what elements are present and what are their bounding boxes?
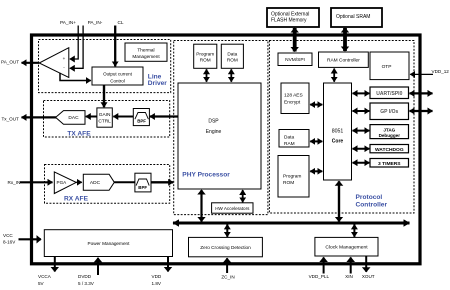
svg-text:BPF: BPF (138, 185, 147, 190)
svg-text:PA_OUT: PA_OUT (1, 60, 19, 65)
RX BPF (135, 173, 151, 192)
svg-text:Protocol: Protocol (356, 194, 383, 201)
GP I/Os box (370, 103, 409, 120)
wire DVDD in (97, 258, 99, 275)
svg-text:WATCHDOG: WATCHDOG (375, 147, 404, 153)
svg-text:Rx_IN: Rx_IN (8, 180, 21, 185)
svg-text:Driver: Driver (148, 80, 167, 87)
svg-text:VDD_12: VDD_12 (432, 69, 450, 74)
svg-text:8051: 8051 (332, 128, 344, 134)
svg-text:HW Accelerators: HW Accelerators (215, 206, 250, 211)
svg-text:DVDD: DVDD (78, 274, 92, 279)
svg-text:GAIN: GAIN (99, 112, 111, 118)
wire ZC_IN (226, 258, 228, 273)
svg-text:Program: Program (283, 174, 301, 180)
wire PA_IN- to amp (70, 26, 83, 69)
wire program ROM to core (310, 170, 322, 172)
data RAM box (279, 130, 309, 148)
watchdog box (370, 145, 409, 153)
svg-text:Optional SRAM: Optional SRAM (336, 14, 370, 20)
wire core to UART (353, 92, 370, 94)
svg-text:Debugger: Debugger (379, 133, 401, 138)
svg-text:5 / 3.3V: 5 / 3.3V (78, 281, 95, 286)
128 AES encrypt box (281, 83, 309, 114)
wire core to bus (338, 181, 340, 221)
program ROM box (PHY) (194, 44, 217, 68)
svg-text:PHY Processor: PHY Processor (182, 172, 230, 179)
ADC (83, 174, 114, 190)
wire amp feedback to control (60, 73, 91, 81)
wire PGA to ADC (77, 181, 82, 183)
wire XOUT (365, 256, 367, 271)
wire BPF to gain ctrl (113, 116, 133, 118)
svg-text:VDD_PLL: VDD_PLL (309, 274, 330, 279)
svg-text:RAM Controller: RAM Controller (327, 58, 360, 64)
svg-text:UART/SPI0: UART/SPI0 (376, 91, 402, 97)
wire ADC to RX BPF (114, 181, 135, 183)
svg-text:+: + (63, 56, 66, 61)
svg-text:Management: Management (132, 54, 160, 59)
svg-text:Program: Program (196, 51, 214, 56)
JTAG debugger box (370, 125, 409, 139)
svg-text:Data: Data (227, 51, 237, 56)
svg-text:PGA: PGA (57, 180, 68, 185)
thermal management box (125, 43, 167, 61)
program ROM box (protocol) (278, 156, 309, 198)
TX AFE dashed box (44, 101, 170, 138)
gain ctrl box (97, 108, 112, 127)
NVM/SPI box (278, 53, 312, 66)
optional external flash memory box (267, 8, 319, 27)
wire DSP to bus (200, 190, 202, 221)
wire SRAM to RAM controller (343, 28, 347, 51)
RAM controller box (319, 52, 369, 67)
svg-text:FLASH Memory: FLASH Memory (271, 18, 307, 24)
wire RAM controller to core (333, 69, 335, 82)
3 timers box (370, 159, 409, 168)
protocol controller dashed box (269, 41, 414, 214)
svg-text:ROM: ROM (283, 180, 294, 186)
PGA (54, 172, 76, 194)
svg-text:Zero Crossing Detection: Zero Crossing Detection (200, 245, 251, 250)
svg-text:Power Management: Power Management (88, 241, 131, 246)
svg-text:128 AES: 128 AES (284, 93, 303, 99)
svg-text:3 TIMERS: 3 TIMERS (378, 161, 401, 167)
svg-text:Thermal: Thermal (137, 47, 154, 52)
wire GP I/Os external (410, 110, 433, 112)
svg-text:OTP: OTP (382, 64, 392, 70)
wire CL to output current control (114, 26, 116, 67)
svg-text:Controller: Controller (356, 202, 388, 209)
optional SRAM box (331, 8, 382, 27)
svg-text:Data: Data (284, 135, 294, 141)
wire PA_OUT (22, 62, 40, 64)
output current control box (92, 67, 143, 85)
wire flash to NVM/SPI (293, 28, 297, 52)
wire VCC to power management (19, 238, 42, 240)
wire core to GP I/Os (353, 110, 370, 112)
DSP engine box (178, 83, 261, 189)
svg-text:5V: 5V (38, 281, 45, 286)
wire bus to zero crossing (226, 224, 228, 237)
op-amp line driver (39, 48, 69, 78)
svg-text:GP I/Os: GP I/Os (380, 109, 398, 115)
clock management box (315, 237, 378, 256)
svg-text:CL: CL (118, 20, 124, 25)
svg-text:NVM/SPI: NVM/SPI (285, 57, 305, 63)
wire control to gain ctrl (103, 85, 105, 107)
8051 core box (324, 83, 352, 180)
svg-text:PA_IN-: PA_IN- (88, 20, 103, 25)
wire RX BPF to PHY (151, 181, 173, 183)
svg-text:VDD: VDD (152, 274, 162, 279)
svg-text:XOUT: XOUT (362, 274, 375, 279)
svg-text:Optional External: Optional External (271, 11, 309, 17)
wire core to JTAG (353, 130, 370, 132)
svg-text:XIN: XIN (345, 274, 353, 279)
svg-text:DSP: DSP (208, 119, 219, 125)
zero crossing detection box (189, 237, 263, 256)
wire data ROM to DSP (230, 69, 232, 82)
svg-text:PA_IN+: PA_IN+ (60, 20, 76, 25)
line driver dashed box (39, 40, 171, 93)
wire core to 3 timers (353, 162, 370, 164)
wire bus to clock management (353, 224, 355, 237)
svg-text:ADC: ADC (90, 180, 101, 186)
svg-text:VCCA: VCCA (38, 274, 52, 279)
bus line (173, 222, 410, 225)
wire data RAM to core (310, 140, 322, 142)
wire VCCA out (54, 257, 56, 272)
RX AFE dashed box (45, 165, 170, 204)
svg-text:BPF: BPF (137, 119, 146, 124)
wire Rx_IN to PGA (20, 181, 53, 183)
svg-text:8-16V: 8-16V (3, 239, 16, 244)
svg-text:RX AFE: RX AFE (64, 196, 89, 203)
wire VDD out (167, 257, 169, 272)
wire gain ctrl to DAC (86, 116, 97, 118)
svg-text:JTAG: JTAG (383, 127, 395, 132)
svg-text:ROM: ROM (200, 58, 211, 63)
svg-text:Engine: Engine (206, 129, 222, 135)
wire DSP to HW accelerators (242, 190, 244, 202)
wire PA_IN+ to amp (70, 26, 78, 60)
OTP box (370, 52, 409, 80)
svg-text:RAM: RAM (284, 141, 295, 147)
svg-text:Clock Management: Clock Management (325, 245, 368, 251)
svg-text:1.8V: 1.8V (152, 281, 162, 286)
svg-text:Control: Control (110, 78, 125, 83)
svg-text:Tx_OUT: Tx_OUT (2, 116, 20, 121)
wire program ROM to DSP (206, 69, 208, 82)
svg-text:TX AFE: TX AFE (67, 131, 91, 138)
UART/SPI0 box (370, 87, 409, 99)
wire DAC to Tx_OUT (22, 116, 57, 118)
svg-text:Encrypt: Encrypt (284, 100, 301, 106)
DAC (56, 111, 85, 125)
wire DSP to TX BPF (150, 115, 178, 117)
wire core to watchdog (353, 148, 370, 150)
wire VDD_12 to OTP (410, 73, 433, 75)
TX BPF (133, 109, 149, 126)
power management box (44, 230, 172, 257)
svg-text:Output current: Output current (103, 72, 133, 77)
svg-text:VCC: VCC (3, 233, 13, 238)
HW accelerators box (212, 203, 253, 213)
wire XIN (350, 257, 352, 273)
wire UART external (410, 92, 433, 94)
svg-text:Core: Core (332, 139, 344, 145)
wire AES to core (310, 104, 322, 106)
svg-text:ZC_IN: ZC_IN (221, 274, 234, 279)
PHY processor dashed box (174, 41, 268, 215)
svg-text:ROM: ROM (227, 58, 238, 63)
wire VDD_PLL (323, 257, 325, 273)
data ROM box (PHY) (221, 44, 243, 68)
chip outer border (32, 35, 421, 264)
svg-text:DAC: DAC (68, 115, 79, 121)
svg-text:CTRL: CTRL (98, 118, 111, 124)
